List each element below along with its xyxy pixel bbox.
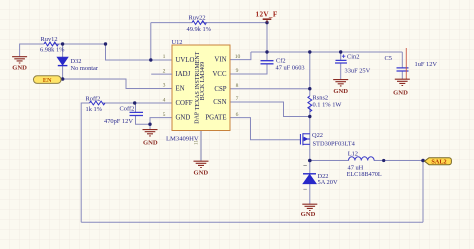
wire Roff2 to pin4: [103, 102, 173, 104]
wire pin6 PGATE to gate: [230, 118, 300, 140]
svg-text:33uF 25V: 33uF 25V: [345, 67, 371, 74]
wire pin9 VCC to Cf2 bottom: [230, 64, 267, 74]
wire D22 vertical: [309, 161, 311, 205]
ground symbol GND under D22: [302, 204, 317, 210]
svg-text:CSP: CSP: [214, 86, 226, 93]
wire left vertical to Roff2: [81, 103, 89, 222]
svg-text:470pF 12V: 470pF 12V: [104, 118, 133, 125]
svg-text:Cin2: Cin2: [347, 53, 359, 60]
svg-text:BUCK LM3409: BUCK LM3409: [200, 62, 206, 101]
inductor L12: [349, 157, 375, 161]
svg-text:L12: L12: [348, 150, 358, 157]
svg-text:U12: U12: [172, 39, 183, 46]
wire Coff2 bottom L: [136, 116, 151, 125]
wire pin8 CSP: [230, 88, 310, 90]
svg-text:5A 20V: 5A 20V: [318, 179, 338, 186]
IC pin names: [176, 57, 227, 122]
svg-text:C5: C5: [385, 55, 392, 62]
IC U1 body LM3409: [172, 45, 230, 131]
wire SAL2 down: [422, 161, 424, 223]
svg-text:GND: GND: [176, 115, 191, 122]
svg-text:GND: GND: [143, 139, 158, 146]
svg-text:Rsns2: Rsns2: [313, 95, 329, 102]
svg-text:1uF 12V: 1uF 12V: [415, 61, 438, 68]
resistor Ruv22: [192, 21, 206, 25]
wire GND1 stub to Ruv12: [20, 44, 44, 57]
wire C5 stub: [401, 52, 403, 79]
svg-text:1k 1%: 1k 1%: [86, 106, 103, 113]
wire Ruv12 right to corner: [54, 44, 172, 60]
wire Rsns2 vertical: [309, 52, 311, 117]
svg-text:STD30PF03LT4: STD30PF03LT4: [313, 140, 356, 147]
svg-text:12V_F: 12V_F: [256, 10, 278, 18]
svg-text:SAL2: SAL2: [431, 159, 446, 166]
svg-text:LM3409HV: LM3409HV: [166, 136, 199, 143]
transistor Q22 PMOS: [300, 133, 309, 145]
svg-text:2: 2: [163, 68, 166, 74]
svg-text:No montar: No montar: [71, 65, 99, 72]
wire Ruv22 top run: [151, 22, 267, 24]
svg-text:D32: D32: [71, 58, 82, 65]
svg-text:Ruv12: Ruv12: [41, 36, 58, 43]
pin numbers: [163, 54, 241, 118]
wire Cin2 stubs: [340, 52, 342, 79]
wire pin7 CSN: [230, 102, 310, 117]
svg-text:EN: EN: [176, 86, 185, 93]
svg-text:CSN: CSN: [213, 99, 226, 106]
svg-text:EN: EN: [43, 77, 52, 84]
ground symbol GND under Cin2: [333, 80, 348, 86]
wire EN to pin3: [61, 79, 172, 89]
svg-text:ELC18B470L: ELC18B470L: [347, 171, 382, 178]
wire IC DAP pin 11: [200, 131, 202, 162]
svg-text:47 uF 0603: 47 uF 0603: [276, 65, 305, 72]
wire VIN rail: [251, 51, 402, 53]
port SAL2: [425, 158, 452, 166]
GND texts: [12, 64, 408, 217]
wire Coff2 top stub: [135, 103, 137, 112]
wire Ruv22 left vertical: [150, 23, 152, 60]
svg-text:VIN: VIN: [214, 57, 226, 64]
resistor Roff2: [90, 101, 105, 105]
svg-text:6.98k 1%: 6.98k 1%: [40, 47, 65, 54]
svg-text:49.9k 1%: 49.9k 1%: [187, 26, 212, 33]
svg-text:Roff2: Roff2: [86, 96, 101, 103]
svg-text:Cf2: Cf2: [276, 57, 286, 64]
ground symbol GND under IC DAP: [194, 161, 209, 167]
wire pin10 VIN: [230, 52, 251, 60]
capacitor C5: [397, 68, 409, 71]
svg-text:1: 1: [163, 54, 166, 60]
ground symbol GND under Coff2: [143, 130, 158, 136]
capacitor Coff2: [130, 112, 144, 115]
ground symbol GND top-left: [12, 57, 27, 63]
svg-text:GND: GND: [12, 64, 27, 71]
capacitor Cf2: [261, 61, 274, 64]
plus sign Cin2: [342, 55, 345, 58]
capacitor Cin2 (polarized): [335, 60, 347, 63]
wire bottom rail: [81, 221, 423, 223]
svg-text:3: 3: [163, 83, 166, 89]
svg-text:DAP: DAP: [195, 111, 201, 124]
svg-text:IADJ: IADJ: [176, 71, 191, 78]
svg-text:GND: GND: [333, 88, 348, 95]
svg-text:COFF: COFF: [176, 100, 193, 107]
wire D32 vertical: [62, 44, 64, 79]
pin 2 stub IADJ: [151, 73, 172, 75]
diode D32 (pointing down): [57, 57, 68, 66]
wire Q22 vertical: [309, 117, 311, 161]
wire pin5 GND: [150, 118, 172, 130]
power port 12V_F: [263, 19, 272, 22]
svg-text:7: 7: [236, 96, 239, 102]
wire 12V_F vertical to Cf2: [266, 23, 268, 61]
svg-text:0.1 1% 1W: 0.1 1% 1W: [313, 102, 343, 109]
svg-text:8: 8: [236, 83, 239, 89]
resistor Ruv12: [44, 42, 58, 46]
svg-text:VCC: VCC: [213, 71, 227, 78]
diode D22 (pointing up): [303, 166, 317, 190]
svg-text:GND: GND: [193, 169, 208, 176]
svg-text:UVLO: UVLO: [176, 57, 195, 64]
svg-text:Ruv22: Ruv22: [189, 15, 206, 22]
svg-text:Coff2: Coff2: [120, 106, 135, 113]
svg-text:GND: GND: [301, 211, 316, 218]
port EN: [34, 76, 62, 84]
svg-text:Q22: Q22: [312, 132, 323, 139]
resistor Rsns2 (vertical): [308, 96, 312, 112]
svg-text:5: 5: [163, 112, 166, 118]
svg-text:4: 4: [163, 97, 166, 103]
red marker line near C5: [405, 48, 407, 79]
ground symbol GND under C5: [395, 79, 410, 85]
wire output node to L12: [310, 160, 349, 162]
wire L12 to SAL2 corner: [374, 160, 423, 162]
svg-text:10: 10: [235, 54, 241, 60]
svg-text:GND: GND: [393, 89, 408, 96]
svg-text:PGATE: PGATE: [205, 115, 226, 122]
svg-text:6: 6: [236, 112, 239, 118]
svg-text:9: 9: [236, 68, 239, 74]
